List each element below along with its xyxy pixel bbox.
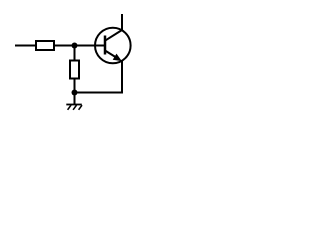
node A junction (72, 43, 78, 49)
wire collector up (121, 14, 123, 30)
wire R1 to base (54, 45, 104, 47)
wire node A down (74, 46, 76, 62)
ground stem (74, 93, 76, 105)
resistor R2 (70, 61, 79, 79)
resistor R1 (36, 41, 54, 50)
transistor Q1 collector diagonal (105, 30, 122, 41)
wire R2 to node B (74, 78, 76, 93)
ground tick 1 (68, 105, 71, 110)
node B junction (72, 90, 78, 96)
wire bottom emitter return (75, 61, 123, 93)
wire input left (15, 45, 36, 47)
ground tick 3 (79, 105, 82, 110)
ground tick 2 (73, 105, 76, 110)
transistor Q1 body (95, 28, 131, 64)
transistor Q1 emitter diagonal (105, 51, 119, 59)
ground bar (66, 104, 82, 106)
transistor Q1 base bar (104, 36, 107, 55)
transistor Q1 emitter arrow (113, 54, 122, 62)
